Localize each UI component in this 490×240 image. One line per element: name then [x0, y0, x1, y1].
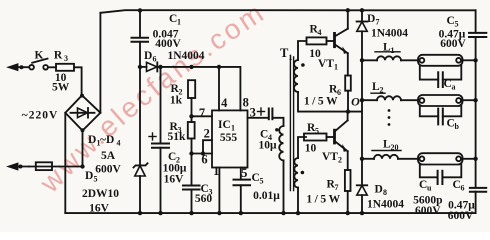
- label R6: [329, 84, 341, 98]
- label D1~D4: [88, 134, 121, 148]
- label C6: [453, 179, 465, 193]
- svg-text:16V: 16V: [164, 174, 185, 186]
- label C5b: [252, 172, 264, 186]
- svg-text:16V: 16V: [89, 203, 110, 215]
- capacitor C2 electrolytic: [149, 67, 169, 213]
- svg-text:7: 7: [335, 183, 339, 192]
- node C5b bottom: [239, 211, 243, 215]
- svg-text:5: 5: [94, 175, 98, 184]
- capacitor C5 top: [469, 33, 486, 37]
- node O junction: [346, 109, 350, 113]
- svg-text:D: D: [375, 184, 383, 196]
- svg-text:1/5W: 1/5W: [306, 194, 342, 206]
- svg-text:1N4004: 1N4004: [167, 50, 204, 62]
- transformer T1 secondary winding W1 (VT1 base): [294, 41, 362, 112]
- label L2: [372, 81, 384, 95]
- label Cb: [447, 118, 460, 132]
- label plus C4: [258, 108, 265, 115]
- node ellipsis dots: [388, 109, 391, 126]
- svg-text:VT: VT: [318, 58, 334, 70]
- transformer T1 primary winding: [279, 126, 283, 213]
- node VT1 collector rail: [346, 8, 350, 12]
- label D6: [144, 50, 157, 64]
- svg-text:8: 8: [383, 188, 387, 197]
- node bus L1 junction: [360, 58, 364, 62]
- svg-text:10: 10: [305, 143, 317, 155]
- svg-text:8: 8: [243, 96, 249, 110]
- capacitor Cb loop: [420, 106, 462, 124]
- capacitor C3: [183, 186, 200, 214]
- label R7: [327, 179, 339, 193]
- capacitor C1: [132, 38, 149, 42]
- label VT1: [318, 58, 338, 72]
- label Cu: [419, 179, 432, 193]
- svg-text:1: 1: [391, 46, 395, 55]
- svg-text:b: b: [455, 122, 460, 131]
- label L1: [383, 42, 395, 56]
- wire R7 to rail: [347, 191, 349, 213]
- transformer T1 secondary winding W2 (VT2 base): [294, 137, 306, 213]
- svg-text:0.01μ: 0.01μ: [253, 190, 280, 202]
- node D7 rail: [360, 8, 364, 12]
- wire pin3: [248, 117, 269, 119]
- resistor R3b 51k: [188, 122, 195, 139]
- wire pin5 stub: [240, 168, 242, 180]
- wire right rail middle: [475, 37, 477, 188]
- svg-text:555: 555: [220, 132, 238, 144]
- node D5 bottom: [138, 211, 142, 215]
- capacitor C6: [470, 188, 486, 192]
- wire L1 row: [362, 59, 377, 61]
- label C4: [260, 129, 272, 143]
- svg-text:600V: 600V: [415, 205, 441, 217]
- node lamp2 right rail: [473, 98, 477, 102]
- resistor R6: [345, 76, 351, 91]
- svg-text:5A: 5A: [101, 150, 116, 162]
- wire L1 to lamp1: [401, 59, 418, 61]
- capacitor C5b 0.01u: [234, 180, 251, 214]
- capacitor Ca loop: [420, 66, 462, 87]
- wire pin2: [203, 140, 212, 153]
- wire lamp20 to right rail: [463, 158, 476, 160]
- inductor L2: [377, 96, 401, 100]
- label R3b: [170, 121, 182, 135]
- wire R4 to VT1 base: [327, 40, 335, 42]
- svg-text:5: 5: [455, 20, 459, 29]
- label D7: [367, 13, 380, 27]
- node top rail C1 junction: [138, 8, 142, 12]
- wire left vertical (bridge + to top rail): [99, 13, 101, 113]
- node bridge bottom vertex: [81, 128, 85, 132]
- node lamp20 right rail: [473, 157, 477, 161]
- wire C1 to D6 row: [139, 42, 141, 67]
- node bridge top vertex: [80, 94, 84, 98]
- svg-text:400V: 400V: [155, 38, 181, 50]
- label C5: [447, 15, 459, 29]
- label T1: [280, 46, 293, 62]
- label L20 underline: [372, 150, 401, 152]
- resistor R4: [307, 37, 327, 44]
- node C1/D6/D5 junction: [138, 65, 142, 69]
- svg-text:O: O: [351, 95, 360, 109]
- svg-text:10μ: 10μ: [258, 140, 277, 152]
- label D5: [85, 170, 98, 184]
- svg-text:4: 4: [318, 28, 322, 37]
- svg-text:600V: 600V: [95, 164, 121, 176]
- svg-text:4: 4: [221, 96, 228, 110]
- wire right rail top: [475, 10, 477, 32]
- wire pin1 to rail: [218, 168, 220, 214]
- node R7 bottom: [346, 211, 350, 215]
- svg-text:600V: 600V: [448, 210, 474, 222]
- wire pin7: [192, 115, 213, 117]
- node C2 bottom: [158, 211, 162, 215]
- op-amp IC1 555 box: [212, 110, 248, 167]
- svg-text:K: K: [35, 50, 44, 62]
- wire right rail bottom: [475, 192, 477, 213]
- fuse F: [36, 162, 52, 170]
- label R2: [171, 83, 183, 97]
- wire R3 to bridge top: [74, 67, 82, 95]
- node D8 bottom: [360, 211, 364, 215]
- wire lamp2 to right rail: [463, 99, 476, 101]
- label R4: [310, 24, 322, 38]
- svg-text:IC: IC: [218, 119, 231, 131]
- label Ca: [444, 78, 456, 92]
- wire pin6: [192, 153, 213, 155]
- transistor VT2: [335, 112, 348, 170]
- node pin2 vertical junction: [201, 151, 205, 155]
- svg-text:2: 2: [204, 127, 210, 141]
- svg-text:4: 4: [117, 139, 121, 148]
- resistor R7: [345, 170, 351, 191]
- lamp20 fluorescent tube: [418, 153, 463, 164]
- watermark www.elecfans.com: [33, 0, 282, 199]
- svg-text:1/5W: 1/5W: [304, 96, 340, 108]
- svg-text:a: a: [452, 83, 456, 92]
- lamp2 fluorescent tube: [418, 95, 463, 106]
- svg-text:D: D: [144, 50, 152, 62]
- node W2 bottom: [296, 211, 300, 215]
- svg-text:3: 3: [250, 106, 256, 120]
- svg-text:560: 560: [195, 193, 213, 205]
- label D8: [375, 184, 388, 198]
- node bus L20 junction: [360, 157, 364, 161]
- svg-text:1k: 1k: [170, 95, 183, 107]
- svg-text:2DW10: 2DW10: [82, 188, 119, 200]
- bridge inner diode: [71, 108, 95, 118]
- wire pin4 stub: [218, 67, 220, 111]
- svg-text:u: u: [427, 184, 432, 193]
- label C2: [168, 151, 180, 165]
- node W1 polarity dot: [301, 63, 305, 67]
- diode D7: [357, 10, 368, 185]
- svg-text:5: 5: [260, 177, 264, 186]
- wire R3b to pin6 row: [191, 139, 193, 154]
- capacitor Cu loop: [420, 165, 462, 185]
- node lamp1 right rail: [473, 58, 477, 62]
- label IC1: [218, 119, 235, 133]
- wire top rail: [100, 10, 475, 13]
- svg-text:VT: VT: [322, 151, 338, 163]
- switch K: [29, 59, 48, 70]
- inductor L20: [374, 155, 398, 159]
- svg-text:2: 2: [338, 156, 342, 165]
- node pin1 bottom: [217, 211, 221, 215]
- wire R6 to O node: [347, 91, 349, 112]
- svg-text:D: D: [85, 170, 93, 182]
- wire L2 to lamp2: [401, 99, 418, 101]
- node R2 top junction: [189, 65, 193, 69]
- diode D6: [140, 62, 157, 71]
- label R3: [54, 50, 68, 64]
- wire R2 to R3b: [191, 98, 193, 122]
- svg-text:3: 3: [64, 54, 68, 63]
- resistor R5: [304, 134, 327, 141]
- wire left bottom vertical (bridge - to bottom rail): [64, 113, 66, 213]
- plug P1 (AC input top): [9, 64, 29, 70]
- node pin4 junction: [217, 65, 221, 69]
- svg-text:1: 1: [177, 18, 181, 27]
- wire L20 row: [362, 158, 374, 160]
- bridge rectifier D1-D4 diamond: [65, 95, 100, 130]
- resistor R2: [188, 80, 195, 98]
- svg-text:1N4004: 1N4004: [367, 199, 404, 211]
- svg-text:R: R: [54, 50, 63, 62]
- svg-text:1N4004: 1N4004: [371, 28, 408, 40]
- svg-text:7: 7: [199, 106, 205, 120]
- capacitor C4: [269, 109, 273, 120]
- wire bottom rail: [65, 212, 475, 214]
- node pin6 junction: [189, 151, 193, 155]
- svg-text:7: 7: [376, 18, 380, 27]
- wire lamp1 to right rail: [463, 59, 476, 61]
- svg-text:D: D: [367, 13, 375, 25]
- label L20: [383, 139, 399, 153]
- svg-text:~D: ~D: [100, 134, 114, 146]
- plug P2 (AC input bottom): [9, 164, 29, 170]
- wire D6 cathode rail to pin8: [157, 67, 240, 111]
- svg-text:5: 5: [241, 166, 247, 180]
- wire pin6 junction to C3: [191, 154, 193, 186]
- svg-text:5W: 5W: [52, 82, 70, 94]
- wire plug to fuse to bridge: [29, 166, 83, 168]
- label C1: [169, 13, 181, 27]
- svg-text:600V: 600V: [440, 38, 466, 50]
- svg-text:1: 1: [334, 63, 338, 72]
- svg-text:~220V: ~220V: [22, 110, 59, 122]
- resistor R3: [56, 64, 74, 71]
- node C3 bottom: [189, 211, 193, 215]
- svg-text:D: D: [88, 134, 96, 146]
- svg-text:51k: 51k: [168, 131, 187, 143]
- node pin7 junction: [189, 114, 193, 118]
- label C3: [201, 183, 213, 197]
- svg-text:6: 6: [201, 153, 207, 167]
- wire switch to R3: [48, 66, 56, 68]
- transistor VT1: [335, 10, 348, 75]
- node T1 primary bottom: [281, 211, 285, 215]
- zener D5: [134, 67, 148, 213]
- node bus L2 junction: [360, 98, 364, 102]
- lamp1 fluorescent tube: [418, 55, 463, 66]
- transformer T1 core: [290, 57, 293, 191]
- node fuse wire junction: [80, 164, 84, 168]
- wire L2 row: [362, 99, 377, 101]
- inductor L1: [377, 56, 401, 60]
- wire L20 to lamp20: [398, 158, 418, 160]
- svg-text:6: 6: [461, 184, 465, 193]
- svg-text:5: 5: [315, 127, 319, 136]
- diode D8: [357, 185, 367, 213]
- label L1 underline: [375, 51, 400, 53]
- label VT2: [322, 151, 342, 165]
- svg-text:6: 6: [153, 55, 157, 64]
- wire C1 top: [139, 10, 141, 37]
- label R5: [307, 122, 319, 136]
- label L2 underline: [371, 92, 385, 94]
- node T1 primary dot: [275, 128, 278, 131]
- node W2 polarity dot: [301, 171, 305, 175]
- node C2 top junction: [158, 65, 162, 69]
- wire C4 to T1 primary: [272, 118, 283, 126]
- wire R5 to VT2 base: [327, 136, 335, 138]
- wire bridge bottom vertex down: [82, 131, 84, 167]
